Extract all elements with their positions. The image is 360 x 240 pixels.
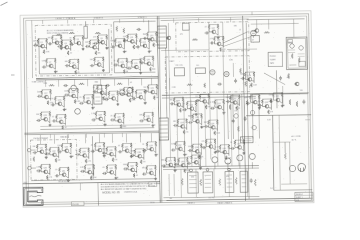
resistor R67 <box>156 85 158 90</box>
wire W74 <box>147 47 149 49</box>
wire junction <box>174 157 175 158</box>
svg-text:PHONO: PHONO <box>270 56 277 58</box>
wire W438 <box>249 100 251 103</box>
knot vertical wire <box>226 94 229 139</box>
stage A left margin line <box>31 21 34 78</box>
capacitor C14 <box>113 63 118 66</box>
stage divider line 2 <box>24 133 159 135</box>
resistor R152 <box>214 131 216 135</box>
wire junction <box>46 38 47 39</box>
resistor R86 <box>45 144 47 149</box>
capacitor C31 <box>139 119 144 122</box>
choke L1 winding lines <box>189 176 197 188</box>
tube V3 <box>250 30 256 36</box>
svg-text:PR-1583: PR-1583 <box>72 204 78 206</box>
resistor R19 <box>77 59 79 64</box>
tube V5 <box>224 71 229 76</box>
middle rail wire 2 <box>227 48 257 50</box>
svg-text:270: 270 <box>127 62 130 64</box>
capacitor C42 <box>142 149 147 152</box>
resistor R54 <box>83 95 85 100</box>
svg-text:.05: .05 <box>55 169 57 171</box>
transistor Q62 <box>168 163 173 167</box>
wire W203 <box>79 153 81 156</box>
relay box K1 <box>182 23 189 30</box>
wire junction <box>155 141 156 142</box>
module hatch lines <box>288 50 305 57</box>
wire W110 <box>54 101 56 104</box>
resistor R102 <box>134 149 136 154</box>
resistor R15 <box>106 35 108 40</box>
wire W339 <box>177 124 179 127</box>
wire W267 <box>98 134 100 143</box>
choke L4 box <box>240 171 248 192</box>
svg-text:680: 680 <box>65 61 68 63</box>
ground <box>222 111 225 114</box>
wire W12 <box>37 44 39 47</box>
wire W365 <box>176 141 185 143</box>
wire W189 <box>37 151 39 153</box>
wire W256 <box>134 170 136 172</box>
wire W315 <box>174 104 176 106</box>
svg-text:Q12: Q12 <box>143 42 146 44</box>
wire W23 <box>62 46 64 48</box>
wire W56 <box>94 56 103 58</box>
stage divider line <box>24 131 159 133</box>
wire W219 <box>122 150 124 152</box>
transistor Q37 <box>124 149 129 153</box>
wire W225 <box>143 153 145 159</box>
wire W39 <box>106 40 108 46</box>
wire W90 <box>132 59 141 61</box>
wire W347 <box>199 123 201 125</box>
svg-text:Q26: Q26 <box>43 115 46 117</box>
resistor R119 <box>133 173 135 177</box>
svg-text:Q8: Q8 <box>72 62 74 64</box>
power transformer T2 <box>159 118 169 140</box>
wire W113 <box>62 105 64 107</box>
wire W66 <box>127 39 129 42</box>
resistor R58 <box>103 96 105 100</box>
wire W168 <box>121 121 123 123</box>
transistor Q63 <box>180 163 185 167</box>
capacitor C40 <box>118 150 123 153</box>
transistor Q60 <box>222 150 227 154</box>
wire W95 <box>144 55 153 57</box>
svg-text:A.C. CORD: A.C. CORD <box>291 135 301 138</box>
ground <box>114 177 117 180</box>
resistor R146 <box>186 119 188 124</box>
lower middle vertical wire <box>238 99 239 166</box>
center divider line 2 <box>159 16 162 202</box>
wire junction <box>144 89 145 90</box>
transistor Q23 <box>125 93 130 97</box>
resistor R72 <box>64 114 66 119</box>
svg-text:560: 560 <box>169 198 172 200</box>
resistor R66 <box>147 85 149 90</box>
svg-text:270: 270 <box>202 141 205 143</box>
wire W31 <box>74 35 83 37</box>
svg-text:2.2M: 2.2M <box>171 143 175 145</box>
ground <box>103 123 106 126</box>
svg-text:PAGE 5 PAGE 6: PAGE 5 PAGE 6 <box>217 201 233 204</box>
wire W103 <box>119 19 121 22</box>
right bus vertical 2 <box>246 23 249 199</box>
wire W372 <box>206 146 208 148</box>
transistor Q29 <box>116 119 121 123</box>
wire W404 <box>191 154 200 156</box>
shielded module M1 outer <box>286 37 307 70</box>
svg-text:Q33: Q33 <box>64 147 67 149</box>
wire W85 <box>118 58 127 60</box>
wire junction <box>45 144 46 145</box>
wire W154 <box>41 111 50 113</box>
ground <box>258 107 261 110</box>
resistor R_m12 <box>204 83 206 88</box>
wire W331 <box>223 104 225 110</box>
lower middle vertical wire <box>191 100 192 167</box>
svg-text:Q15: Q15 <box>134 63 137 65</box>
wire W399 <box>178 157 187 159</box>
svg-text:OUTPUT: OUTPUT <box>208 197 215 199</box>
resistor R134 <box>179 108 181 112</box>
wire W332 <box>221 108 223 110</box>
svg-text:PAGE 4: PAGE 4 <box>187 202 195 205</box>
svg-text:Q30: Q30 <box>146 116 149 118</box>
svg-text:Q13: Q13 <box>150 35 153 37</box>
wire W142 <box>144 94 146 100</box>
transistor Q11 <box>129 39 134 43</box>
wire W377 <box>220 151 222 153</box>
svg-text:Q43: Q43 <box>109 168 112 170</box>
capacitor C16 <box>140 61 145 64</box>
capacitor C77 <box>241 77 246 80</box>
capacitor C41 <box>130 154 135 157</box>
svg-text:Q37: Q37 <box>125 146 128 148</box>
wire W379 <box>227 153 229 155</box>
svg-text:TUNER: TUNER <box>270 59 277 61</box>
svg-text:Q42: Q42 <box>87 168 90 170</box>
wire W245 <box>93 169 95 175</box>
middle bus rail 1 <box>162 93 309 95</box>
resistor R76 <box>114 114 116 119</box>
wire W286 <box>158 28 165 30</box>
svg-text:Q68: Q68 <box>265 102 268 104</box>
tube V3 internal <box>252 32 255 38</box>
knot vertical wire <box>232 94 235 139</box>
wire W146 <box>148 91 150 93</box>
resistor R150 <box>207 120 209 125</box>
wire W221 <box>129 152 131 154</box>
scan speck left margin <box>11 75 15 76</box>
wire W182 <box>128 79 130 86</box>
transistor Q58 <box>194 149 199 153</box>
wire W155 <box>56 119 58 122</box>
transistor Q39 <box>149 147 154 151</box>
resistor R32 <box>148 38 150 43</box>
resistor R141 <box>223 100 225 105</box>
wire W29 <box>82 40 84 46</box>
wire W412 <box>223 22 225 159</box>
capacitor C18 <box>37 95 42 98</box>
wire W127 <box>105 90 107 96</box>
transistor Q25 <box>150 90 155 94</box>
resistor R144 <box>236 106 238 110</box>
svg-text:Q3: Q3 <box>64 43 66 45</box>
resistor R137 <box>199 94 201 99</box>
wire W190 <box>45 149 47 155</box>
wire W193 <box>49 152 51 155</box>
capacitor C75 <box>269 100 274 103</box>
capacitor C_k1 <box>232 119 235 124</box>
wire junction <box>93 164 94 165</box>
resistor R14 <box>97 35 99 40</box>
wire W91 <box>143 61 145 64</box>
svg-text:Q50: Q50 <box>190 104 193 106</box>
transistor Q22 <box>111 96 116 100</box>
wire junction <box>104 111 105 112</box>
wire W205 <box>88 153 90 159</box>
svg-text:100: 100 <box>143 87 146 89</box>
svg-text:.02: .02 <box>136 175 138 177</box>
svg-text:Q27: Q27 <box>59 118 62 120</box>
output lower rail <box>163 196 259 198</box>
wire W353 <box>208 119 217 121</box>
wire W375 <box>206 138 215 140</box>
output bus rail 2 <box>163 168 259 170</box>
resistor R63 <box>129 98 131 102</box>
wire W264 <box>53 135 55 144</box>
resistor R107 <box>40 165 42 170</box>
wire W100 <box>42 20 44 23</box>
title strip top line <box>23 182 160 184</box>
wire W343 <box>178 118 187 120</box>
wire W350 <box>209 126 211 128</box>
capacitor C35 <box>45 152 50 155</box>
transistor Q33 <box>64 149 69 153</box>
wire W452 <box>273 92 282 94</box>
capacitor C22 <box>93 90 98 93</box>
wire W451 <box>280 101 282 103</box>
capacitor C69 <box>174 163 179 166</box>
wire W260 <box>154 170 156 176</box>
right rail wire 2 <box>282 86 284 106</box>
transistor Q20 <box>85 100 90 104</box>
wire W292 <box>160 124 168 126</box>
resistor R_b1 <box>116 26 118 32</box>
capacitor C36 <box>57 150 62 153</box>
wire W370 <box>192 143 201 145</box>
svg-text:4-58: 4-58 <box>296 200 299 202</box>
wire junction <box>156 31 157 32</box>
wire W170 <box>143 117 145 120</box>
wire W228 <box>146 147 148 150</box>
wire W441 <box>257 104 259 106</box>
capacitor C45 <box>80 170 85 173</box>
resistor R_r2 <box>287 73 289 79</box>
capacitor C2 <box>48 42 53 45</box>
wire W132 <box>117 96 119 102</box>
wire junction <box>106 34 107 35</box>
wire W73 <box>148 43 150 49</box>
svg-text:IN60: IN60 <box>123 164 127 166</box>
ground <box>48 124 51 127</box>
svg-text:CHASSIS 120-A: CHASSIS 120-A <box>124 191 138 194</box>
wire W119 <box>69 88 78 90</box>
capacitor C4 <box>69 43 74 46</box>
wire W41 <box>98 34 107 36</box>
wire W191 <box>44 153 46 155</box>
resistor R27 <box>123 38 125 43</box>
wire junction <box>92 94 93 95</box>
resistor R142 <box>229 95 231 100</box>
transistor Q24 <box>138 95 143 99</box>
wire W468 <box>295 194 313 196</box>
ground <box>214 151 217 154</box>
capacitor C28 <box>52 119 57 122</box>
wire W232 <box>147 141 156 143</box>
resistor R7 <box>70 40 72 45</box>
capacitor C13 <box>143 37 148 40</box>
wire W320 <box>187 108 189 110</box>
resistor R170 <box>177 158 179 163</box>
transistor Q57 <box>177 147 182 151</box>
capacitor C47 <box>123 167 128 170</box>
resistor R28 <box>127 34 129 39</box>
resistor R_a1 <box>56 34 62 36</box>
wire junction <box>63 96 64 97</box>
wire W443 <box>261 104 263 107</box>
svg-text:680: 680 <box>173 121 176 123</box>
wire W388 <box>239 162 241 168</box>
ground <box>105 47 108 50</box>
wire W135 <box>123 92 125 95</box>
svg-text:270: 270 <box>143 161 146 163</box>
wire W133 <box>115 100 117 102</box>
wire W57 <box>85 21 87 26</box>
ground <box>67 179 70 182</box>
resistor R16 <box>45 59 47 64</box>
wire W299 <box>216 33 218 35</box>
capacitor C_k2 <box>244 116 247 121</box>
wire W43 <box>47 65 49 67</box>
capacitor C30 <box>110 118 115 121</box>
transistor Q12 <box>142 44 147 48</box>
resistor R169 <box>174 157 176 162</box>
resistor R38 <box>123 69 125 73</box>
logo script signature <box>29 195 41 197</box>
wire W449 <box>273 99 275 101</box>
output stage vertical wire <box>195 169 197 197</box>
svg-text:IN60: IN60 <box>140 58 144 60</box>
wire W369 <box>199 152 201 154</box>
output tube pin circle P_o3 <box>228 168 231 171</box>
divider tick <box>121 133 123 137</box>
wire W20 <box>59 44 61 46</box>
top drop tick 3 <box>230 17 232 21</box>
crystal Y1 box <box>251 36 260 43</box>
resistor R114 <box>90 176 92 180</box>
wire W38 <box>98 41 100 43</box>
svg-text:Q31: Q31 <box>40 147 43 149</box>
IF can winding lines <box>95 89 100 101</box>
svg-text:Q20: Q20 <box>86 98 89 100</box>
svg-text:Q22: Q22 <box>111 94 114 96</box>
capacitor C53 <box>170 102 175 105</box>
wire W107 <box>50 94 52 100</box>
capacitor C29 <box>91 118 96 121</box>
resistor R_s23 <box>117 83 123 85</box>
transistor Q13 <box>149 37 154 41</box>
wire W201 <box>69 152 71 154</box>
wire W237 <box>41 163 50 165</box>
resistor R96 <box>103 143 105 148</box>
wire W403 <box>198 164 200 166</box>
wire W117 <box>77 93 79 99</box>
output stage vertical wire <box>213 169 215 197</box>
svg-text:Q34: Q34 <box>82 151 85 153</box>
svg-text:.02: .02 <box>70 52 72 54</box>
resistor R53 <box>74 99 76 103</box>
transistor Q6 <box>100 40 105 44</box>
lower middle vertical wire <box>205 99 206 166</box>
transistor Q67 <box>252 100 257 104</box>
resistor R59 <box>108 91 110 96</box>
wire W240 <box>67 172 69 178</box>
resistor R11 <box>89 40 91 45</box>
wire W172 <box>152 117 154 123</box>
wire W222 <box>122 142 131 144</box>
wire junction <box>200 154 201 155</box>
wire W389 <box>251 162 253 168</box>
transistor Q7 <box>48 64 53 68</box>
wire W42 <box>45 63 47 66</box>
wire W293 <box>160 128 168 130</box>
wire W432 <box>289 64 296 66</box>
title block logo letter C inner contour <box>25 188 42 204</box>
svg-text:Q40: Q40 <box>43 168 46 170</box>
capacitor C50 <box>210 41 215 44</box>
wire W210 <box>103 147 105 153</box>
resistor R93 <box>88 148 90 153</box>
wire W116 <box>69 95 71 97</box>
svg-text:Q63: Q63 <box>181 161 184 163</box>
wire junction <box>271 98 272 99</box>
capacitor C_o1 <box>250 178 253 183</box>
wire W302 <box>214 43 216 45</box>
wire W124 <box>84 94 93 96</box>
wire W378 <box>228 149 230 155</box>
wire W241 <box>66 176 68 178</box>
capacitor C57 <box>226 100 231 103</box>
middle rail wire <box>161 49 209 52</box>
wire W368 <box>200 149 202 155</box>
title block logo inner aperture contour <box>29 192 37 201</box>
svg-text:IN60: IN60 <box>152 69 156 71</box>
knot transistor Q_k1 <box>234 114 238 118</box>
stage 3 mid vertical <box>91 136 94 179</box>
wire W81 <box>117 63 119 66</box>
wire W88 <box>140 64 142 70</box>
wire W261 <box>153 174 155 176</box>
wire W319 <box>186 106 188 109</box>
wire W82 <box>118 65 120 67</box>
wire W120 <box>83 99 85 102</box>
wire W22 <box>61 45 63 48</box>
wire W382 <box>235 146 237 148</box>
resistor R46 <box>41 90 43 95</box>
svg-text:Q62: Q62 <box>168 161 171 163</box>
